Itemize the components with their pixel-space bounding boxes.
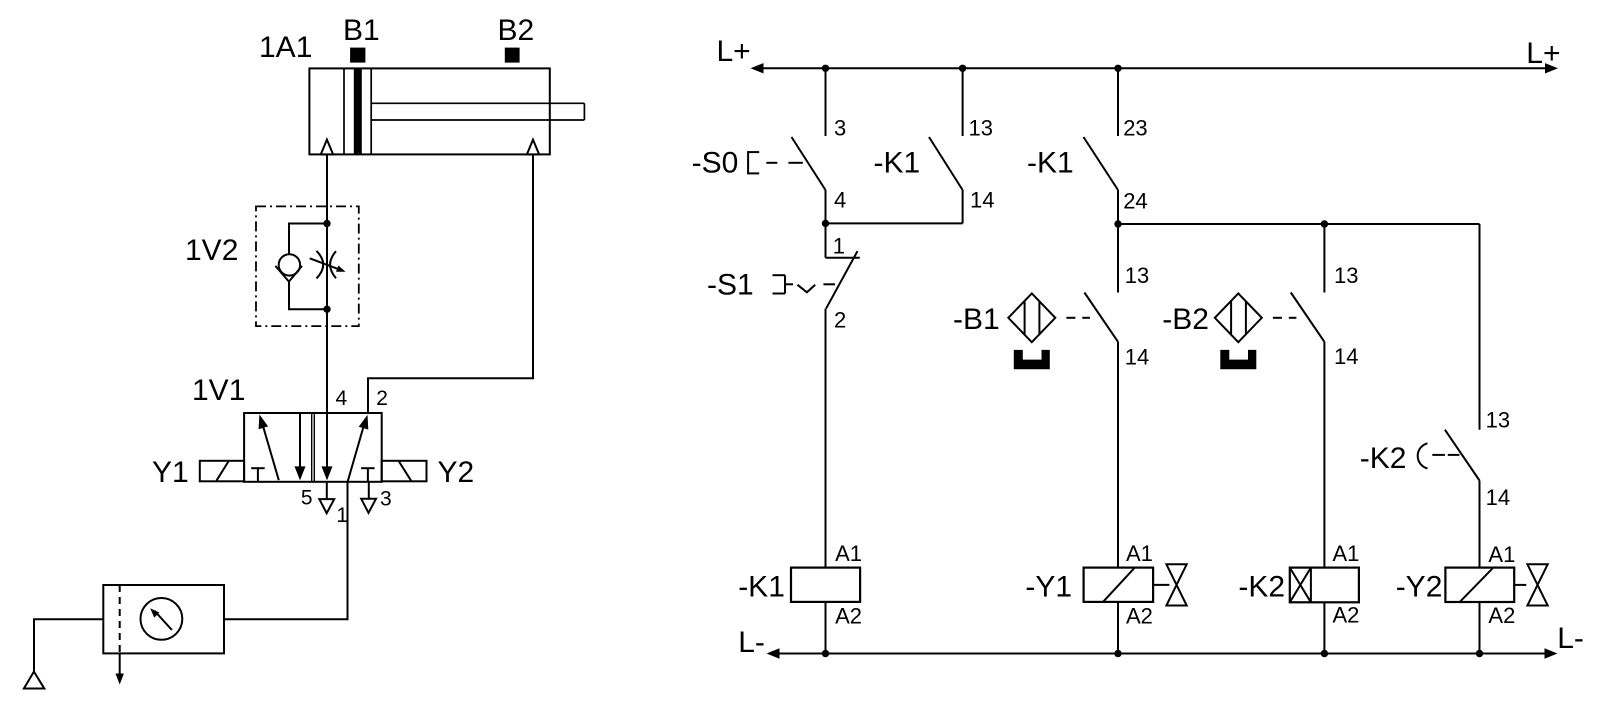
wire K2 coil to L- (1323, 602, 1325, 653)
svg-text:B2: B2 (498, 14, 535, 47)
svg-text:24: 24 (1123, 189, 1147, 214)
wire node24 to B2 (1323, 224, 1325, 293)
svg-text:13: 13 (1486, 408, 1510, 433)
service unit body (103, 585, 224, 653)
rail L+ (763, 67, 1546, 69)
wire K1 contact down (962, 190, 964, 223)
pushbutton S0 actuator (747, 151, 749, 174)
wire node24 to K2 contact (1479, 224, 1481, 430)
solenoid Y1 (200, 461, 244, 482)
contact -S1 NC (826, 257, 860, 259)
wire S1 to K1 coil (825, 309, 827, 568)
svg-text:A2: A2 (1333, 603, 1360, 628)
valve flow arrow left vert (299, 413, 301, 468)
valve 1V1 divider (311, 413, 313, 482)
wire cylinder left port to valve port 4 (326, 154, 328, 413)
service unit drain arrow (119, 653, 121, 676)
node 24 (1114, 220, 1121, 227)
svg-text:14: 14 (970, 188, 994, 213)
svg-text:3: 3 (834, 116, 846, 141)
svg-text:14: 14 (1334, 344, 1358, 369)
contact -B2 (1291, 293, 1325, 342)
svg-text:4: 4 (336, 387, 348, 410)
wire B2 to K2 coil (1323, 342, 1325, 568)
node lower 1V2 (323, 306, 330, 313)
relay coil -K2 (1290, 568, 1359, 603)
solenoid Y2 (382, 461, 427, 482)
valve blocked port left (251, 467, 265, 469)
svg-text:-B2: -B2 (1162, 303, 1209, 336)
wire Y1 to L- (1117, 602, 1119, 654)
check valve ball (279, 254, 300, 275)
svg-text:A1: A1 (1488, 542, 1515, 567)
node 4/14 (822, 220, 829, 227)
wire node 24 bus (1118, 223, 1480, 225)
node L+ col3 (1114, 65, 1121, 72)
svg-text:-B1: -B1 (953, 303, 1000, 336)
sensor -B1 symbol (1008, 293, 1055, 342)
pushbutton S1 actuator (773, 274, 786, 276)
svg-text:13: 13 (1334, 263, 1358, 288)
svg-text:A1: A1 (1333, 541, 1360, 566)
valve blocked port right (361, 467, 375, 469)
check valve seat (275, 266, 302, 282)
valve solenoid -Y2 (1445, 568, 1514, 602)
relay coil -K1 (791, 568, 860, 602)
svg-text:23: 23 (1123, 116, 1147, 141)
svg-text:1V2: 1V2 (185, 234, 238, 267)
svg-text:Y2: Y2 (438, 456, 475, 489)
wire K2 contact to Y2 (1479, 481, 1481, 568)
valve 1V1 left box (244, 413, 382, 482)
node upper 1V2 (323, 220, 330, 227)
sensor B1 marker (350, 48, 365, 63)
svg-text:-Y2: -Y2 (1396, 571, 1443, 604)
svg-text:3: 3 (380, 488, 392, 511)
valve flow arrow right diag (348, 425, 364, 482)
svg-text:-K1: -K1 (1027, 147, 1074, 180)
sensor -B1 magnet (1014, 350, 1050, 369)
sensor -B2 magnet (1220, 350, 1256, 369)
svg-text:14: 14 (1125, 344, 1149, 369)
svg-text:5: 5 (301, 487, 313, 510)
service unit separator (119, 585, 121, 653)
svg-text:A1: A1 (1126, 541, 1153, 566)
cylinder port left (321, 140, 333, 155)
svg-text:A2: A2 (1488, 603, 1515, 628)
sensor B2 marker (505, 48, 520, 63)
node L- col5 (1476, 650, 1483, 657)
compressed air source (24, 672, 44, 689)
svg-text:-S1: -S1 (707, 269, 754, 302)
node 24 branch B2 (1321, 220, 1328, 227)
node L- col3 (1114, 650, 1121, 657)
svg-text:14: 14 (1486, 485, 1510, 510)
svg-text:13: 13 (1125, 263, 1149, 288)
wire L+ to K1 contact (962, 68, 964, 136)
svg-text:L+: L+ (1526, 37, 1560, 70)
wire L+ to K1 contact2 (1117, 68, 1119, 136)
wire L+ to S0 (825, 68, 827, 136)
svg-text:Y1: Y1 (152, 456, 189, 489)
wire Y2 to L- (1479, 602, 1481, 654)
svg-text:-Y1: -Y1 (1025, 571, 1072, 604)
svg-text:L-: L- (1557, 622, 1584, 655)
flow control 1V2 enclosure (256, 206, 359, 326)
svg-text:1: 1 (833, 234, 845, 259)
wire node to S1 (825, 223, 827, 257)
valve flow arrow left diag (262, 421, 279, 480)
throttle adjust arrow (310, 258, 341, 270)
svg-text:L-: L- (738, 626, 765, 659)
relay K2 actuator (1418, 443, 1428, 468)
wire node24 to B1 (1117, 224, 1119, 293)
wire cylinder right port to valve port 2 (368, 154, 533, 413)
wire B1 to Y1 coil (1117, 342, 1119, 568)
valve flow arrow right vert (326, 413, 328, 468)
sensor -B2 symbol (1215, 293, 1262, 342)
valve solenoid -Y1 (1084, 568, 1154, 602)
wire K1 to node 24 (1117, 190, 1119, 224)
svg-text:1V1: 1V1 (192, 374, 245, 407)
node L+ col1 (822, 65, 829, 72)
gauge (141, 598, 183, 640)
exhaust port 3 (368, 482, 370, 499)
contact -K2 13/14 (1445, 430, 1480, 481)
svg-text:B1: B1 (343, 14, 380, 47)
wire service unit to source (34, 619, 103, 671)
node L- col4 (1321, 650, 1328, 657)
svg-text:2: 2 (834, 308, 846, 333)
node L- col1 (822, 650, 829, 657)
contact -S0 (792, 137, 826, 190)
svg-text:1: 1 (336, 504, 348, 527)
svg-text:-K2: -K2 (1238, 571, 1285, 604)
contact -K1 23/24 (1084, 137, 1119, 190)
wire valve port 1 to service unit (224, 482, 348, 619)
wire check valve branch (289, 224, 327, 256)
node L+ col2 (959, 65, 966, 72)
wire S0 to node (825, 190, 827, 223)
svg-text:-K2: -K2 (1360, 442, 1407, 475)
cylinder 1A1 (309, 68, 584, 154)
svg-text:A1: A1 (835, 541, 862, 566)
throttle restriction (317, 251, 324, 279)
wire K1 coil to L- (825, 602, 827, 654)
svg-text:2: 2 (376, 387, 388, 410)
cylinder port right (527, 140, 539, 155)
svg-text:13: 13 (969, 116, 993, 141)
svg-text:1A1: 1A1 (259, 31, 312, 64)
svg-text:A2: A2 (1126, 604, 1153, 629)
svg-text:-K1: -K1 (738, 571, 785, 604)
rail L- (779, 653, 1545, 655)
wire K1-14 link (826, 222, 963, 224)
svg-text:-S0: -S0 (692, 147, 739, 180)
svg-text:4: 4 (834, 188, 846, 213)
svg-text:-K1: -K1 (874, 147, 921, 180)
svg-text:A2: A2 (835, 604, 862, 629)
exhaust port 5 (326, 482, 328, 499)
contact -K1 13/14 (929, 137, 963, 190)
contact -B1 (1084, 293, 1118, 342)
svg-text:L+: L+ (717, 35, 751, 68)
